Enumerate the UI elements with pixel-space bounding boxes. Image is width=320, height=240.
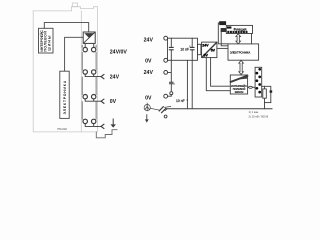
DC/DC converter U3	[83, 32, 95, 43]
data contact band in U5	[227, 31, 247, 33]
svg-text:5V: 5V	[204, 54, 209, 58]
clamp spring rails	[82, 45, 96, 119]
svg-text:24V: 24V	[144, 38, 154, 44]
wires: converter outputs to jumper contacts	[85, 43, 94, 47]
terminal 0V field	[164, 94, 168, 98]
svg-text:0V: 0V	[145, 95, 152, 101]
svg-text:Функция: Функция	[234, 27, 247, 31]
module housing silhouette	[33, 3, 97, 132]
wire: connector to termination resistor loop	[262, 86, 271, 108]
data contact 2	[221, 28, 227, 32]
node B open circle	[164, 115, 167, 118]
input filter box	[168, 38, 201, 60]
earth rail	[166, 108, 272, 110]
capacitor C2 10nF to earth	[190, 38, 194, 109]
wire: isolation box to fieldbus connector with plug symbol	[248, 86, 255, 88]
capacitor C3 string on 24V field	[168, 60, 174, 91]
DIN rail foot	[96, 130, 117, 138]
DC/DC converter U4 24V-5V	[202, 42, 217, 58]
svg-text:2): 2)	[189, 46, 191, 48]
functional earth arrow	[111, 119, 116, 128]
capacitor C1 10nF across input	[169, 38, 173, 60]
wire 0V to earth rail	[186, 60, 188, 108]
wire: data contact 1 to electronics	[218, 23, 228, 44]
svg-text:24V: 24V	[144, 70, 154, 76]
power jumper contacts 24V/0V	[83, 47, 96, 51]
terminal pair 24V	[83, 70, 96, 74]
terminal 0V system	[164, 58, 168, 62]
svg-text:2) 10 нФ / 500 В: 2) 10 нФ / 500 В	[249, 115, 269, 119]
svg-text:10 nF: 10 nF	[180, 47, 189, 51]
wire: converter bottom left to isolation box	[206, 58, 230, 91]
wire + plug chevron 0V row	[85, 99, 104, 103]
function box U5	[226, 25, 252, 33]
termination resistor R1	[263, 89, 267, 98]
wire: function box to electronics	[251, 34, 253, 44]
junction pad	[270, 90, 273, 92]
svg-text:ШИНЫ: ШИНЫ	[235, 91, 244, 94]
wire: data contact 2 to electronics	[221, 32, 228, 46]
svg-text:ЭЛЕКТРОНИКА: ЭЛЕКТРОНИКА	[63, 80, 67, 114]
svg-text:24V: 24V	[202, 44, 209, 48]
wire + plug chevron earth row	[85, 124, 104, 129]
svg-text:ШИНЫ: ШИНЫ	[47, 35, 51, 51]
fieldbus interface box U1	[39, 28, 54, 53]
svg-text:24V/0V: 24V/0V	[110, 50, 128, 56]
svg-text:24V: 24V	[110, 75, 120, 81]
svg-text:750-602: 750-602	[57, 127, 67, 131]
capacitor C4 diagonal to earth rail	[151, 106, 171, 112]
electronics box U6	[228, 44, 259, 60]
svg-text:5V: 5V	[211, 49, 216, 53]
svg-text:10 nF: 10 nF	[176, 99, 185, 103]
wire: interface box top to converter top	[44, 23, 88, 32]
wire: 0V field to node A	[168, 95, 172, 96]
data bus double arrow 2	[239, 60, 244, 74]
svg-text:0V: 0V	[110, 99, 117, 105]
contact pad in U5	[227, 26, 231, 28]
terminal 24V field	[164, 71, 168, 75]
equipotential bonding symbol	[144, 103, 150, 111]
down arrow to DIN rail	[145, 114, 149, 122]
wire: converter left to electronics box top	[65, 37, 84, 71]
svg-text:2): 2)	[186, 99, 188, 101]
svg-text:2): 2)	[173, 84, 175, 86]
connector pins	[256, 68, 262, 93]
fieldbus interface isolation box U7	[230, 75, 247, 94]
svg-text:0V: 0V	[145, 59, 152, 65]
fieldbus connector X1	[255, 67, 262, 97]
svg-text:ЭЛЕКТРОНИКА: ЭЛЕКТРОНИКА	[230, 51, 251, 55]
terminal pair 0V	[83, 95, 96, 99]
electronics box U2	[60, 71, 69, 118]
data bus double arrow 1	[236, 34, 241, 44]
terminal 24V system	[164, 36, 168, 40]
terminal pair earth	[83, 119, 96, 123]
wire + plug chevron 24V row	[85, 74, 104, 79]
data contact 1	[219, 21, 226, 25]
node A test point circle	[170, 92, 173, 95]
wire: converter 5V to electronics	[217, 47, 228, 49]
svg-text:1) 1 кан.: 1) 1 кан.	[249, 110, 260, 114]
wire: converter bottom right to isolation box	[211, 58, 231, 87]
